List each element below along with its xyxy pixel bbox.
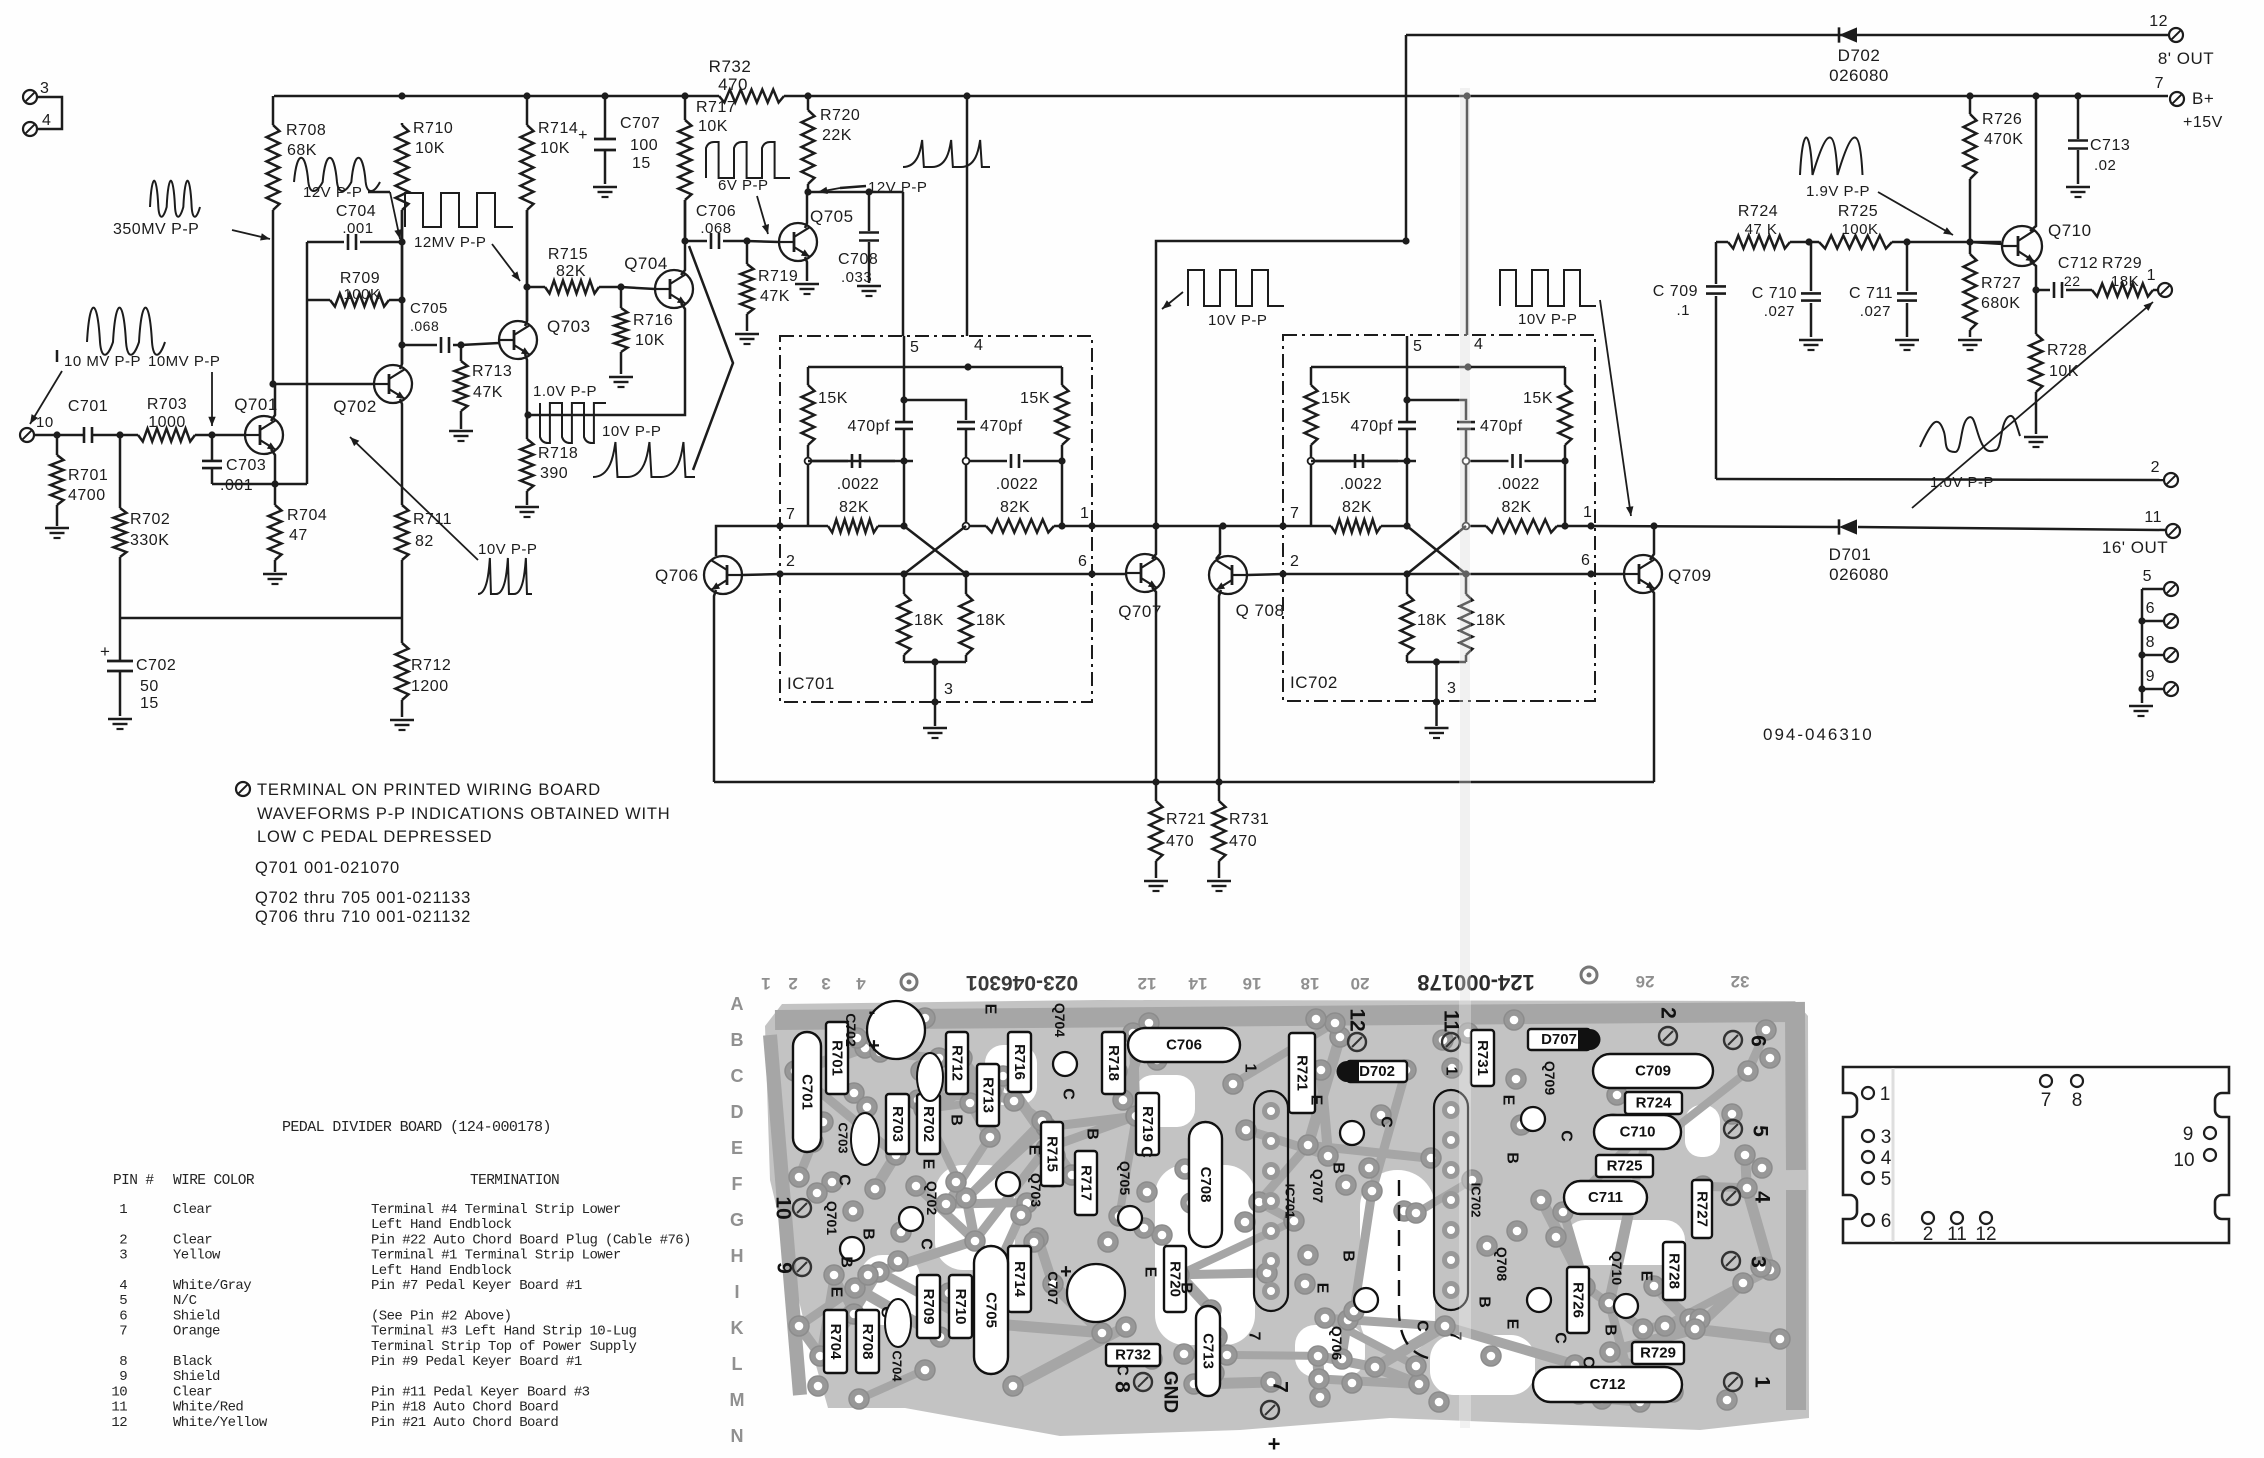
svg-text:18K: 18K <box>1417 612 1447 629</box>
ground Q705 <box>795 284 819 294</box>
svg-text:GND: GND <box>1160 1371 1181 1413</box>
svg-text:5: 5 <box>910 339 919 356</box>
svg-text:C711: C711 <box>1588 1189 1623 1206</box>
resistor R721 <box>1150 782 1207 878</box>
svg-text:470pf: 470pf <box>1480 418 1523 435</box>
waveform 10v square right <box>1500 270 1596 306</box>
svg-text:C703: C703 <box>836 1122 851 1153</box>
svg-text:TERMINAL ON PRINTED WIRING BOA: TERMINAL ON PRINTED WIRING BOARD <box>257 781 601 799</box>
svg-text:10V P-P: 10V P-P <box>478 541 537 558</box>
svg-text:680K: 680K <box>1981 295 2020 312</box>
svg-text:6: 6 <box>1078 553 1087 570</box>
resistor R702 <box>114 435 171 618</box>
svg-text:Clear: Clear <box>173 1384 212 1400</box>
svg-text:R724: R724 <box>1738 203 1778 220</box>
svg-text:C: C <box>1552 1332 1569 1344</box>
svg-text:Left Hand Endblock: Left Hand Endblock <box>371 1217 512 1233</box>
svg-text:7: 7 <box>1290 505 1299 522</box>
wire emitter bottom y=618 <box>120 617 402 620</box>
svg-text:B: B <box>1504 1152 1521 1164</box>
ground R721 <box>1144 881 1168 891</box>
wire Q701 collector <box>271 384 275 421</box>
resistor R726 <box>1964 96 2024 242</box>
svg-text:15K: 15K <box>818 390 848 407</box>
svg-text:LOW C PEDAL DEPRESSED: LOW C PEDAL DEPRESSED <box>257 828 492 846</box>
svg-text:C 709: C 709 <box>1653 283 1698 300</box>
svg-text:R702: R702 <box>920 1106 937 1142</box>
waveform 350mv sine <box>150 181 200 217</box>
wire y=192 to pin5 <box>808 188 903 336</box>
svg-text:82K: 82K <box>1342 499 1372 516</box>
svg-text:Q706 thru 710 001-021132: Q706 thru 710 001-021132 <box>255 908 471 926</box>
capacitor C701 <box>68 398 108 443</box>
svg-text:R731: R731 <box>1229 811 1269 828</box>
svg-text:.1: .1 <box>1676 302 1690 319</box>
svg-text:1: 1 <box>1880 1084 1891 1105</box>
svg-text:IC701: IC701 <box>787 674 835 693</box>
svg-text:.0022: .0022 <box>1497 476 1540 493</box>
label 12MV P-P <box>414 234 520 281</box>
note line 2 <box>257 805 670 823</box>
terminal 6 <box>2138 600 2178 628</box>
capacitor C708 <box>838 192 879 286</box>
terminal 3 <box>23 80 49 104</box>
svg-text:C: C <box>731 1066 744 1086</box>
svg-text:10V P-P: 10V P-P <box>1518 311 1577 328</box>
resistor R718 <box>521 439 579 505</box>
ground C711 <box>1895 340 1919 350</box>
svg-text:Q704: Q704 <box>624 254 668 273</box>
svg-text:Q710: Q710 <box>2048 221 2092 240</box>
svg-text:B: B <box>838 1256 855 1268</box>
svg-text:C704: C704 <box>336 203 376 220</box>
capacitor C703 <box>202 435 266 494</box>
capacitor C711 <box>1849 242 1917 337</box>
wire interdivider riser <box>1156 237 1410 526</box>
note Q706 pn <box>255 908 471 926</box>
capacitor C712 <box>2036 255 2098 298</box>
svg-text:N: N <box>731 1426 744 1446</box>
svg-text:+: + <box>868 1035 880 1057</box>
svg-text:.02: .02 <box>2094 157 2116 174</box>
svg-text:20: 20 <box>1351 974 1370 993</box>
svg-text:82K: 82K <box>556 263 586 280</box>
svg-text:12: 12 <box>1975 1224 1996 1245</box>
svg-text:.027: .027 <box>1860 303 1891 320</box>
svg-text:Orange: Orange <box>173 1324 220 1340</box>
svg-text:I: I <box>734 1282 739 1302</box>
svg-text:.068: .068 <box>700 220 731 237</box>
svg-text:C: C <box>1138 1146 1155 1158</box>
svg-text:R731: R731 <box>1474 1040 1491 1076</box>
svg-text:18: 18 <box>1301 974 1320 993</box>
svg-text:R713: R713 <box>472 363 512 380</box>
svg-text:3: 3 <box>40 80 49 97</box>
capacitor C702 electrolytic <box>100 618 176 716</box>
svg-text:6: 6 <box>1747 1035 1770 1047</box>
svg-text:7: 7 <box>1269 1381 1292 1393</box>
svg-text:1: 1 <box>1443 1067 1460 1076</box>
svg-text:Q710: Q710 <box>1609 1251 1625 1285</box>
svg-text:E: E <box>1638 1271 1655 1282</box>
svg-text:C707: C707 <box>620 115 660 132</box>
pcb components <box>793 1001 1713 1402</box>
svg-text:D702: D702 <box>1838 46 1881 65</box>
svg-text:6: 6 <box>2146 600 2155 617</box>
svg-text:124-000178: 124-000178 <box>1417 970 1534 995</box>
svg-text:10: 10 <box>36 414 54 431</box>
capacitor C706 <box>685 203 747 249</box>
svg-text:Terminal #1 Terminal Strip Low: Terminal #1 Terminal Strip Lower <box>371 1248 621 1264</box>
transistor Q708 <box>1209 556 1284 620</box>
svg-text:10: 10 <box>111 1384 127 1400</box>
svg-text:470: 470 <box>718 75 748 94</box>
svg-text:D707: D707 <box>1541 1031 1577 1048</box>
svg-text:22K: 22K <box>822 127 852 144</box>
svg-text:2: 2 <box>1923 1224 1934 1245</box>
svg-text:15K: 15K <box>1020 390 1050 407</box>
svg-text:R719: R719 <box>758 268 798 285</box>
note Q702 pn <box>255 889 471 907</box>
resistor R728 <box>2030 334 2088 434</box>
transistor Q707 <box>1118 554 1164 621</box>
label 094-046310 <box>1763 725 1874 744</box>
svg-text:47 K: 47 K <box>1745 221 1778 238</box>
svg-text:R721: R721 <box>1166 811 1206 828</box>
label 10MV P-P 2 <box>148 353 220 426</box>
svg-text:C704: C704 <box>890 1350 905 1382</box>
svg-text:10 MV P-P: 10 MV P-P <box>64 353 141 370</box>
svg-text:R724: R724 <box>1636 1095 1673 1112</box>
svg-text:R715: R715 <box>548 246 588 263</box>
node R719 base <box>743 237 750 244</box>
resistor R729 <box>2092 255 2153 297</box>
svg-text:(See Pin #2 Above): (See Pin #2 Above) <box>371 1308 511 1324</box>
svg-text:1.0V P-P: 1.0V P-P <box>533 383 597 400</box>
svg-text:+: + <box>100 642 110 661</box>
svg-text:1: 1 <box>1080 505 1089 522</box>
svg-text:PIN #: PIN # <box>113 1173 154 1189</box>
capacitor C707 <box>578 96 660 184</box>
IC702 pin4 riser <box>1466 96 1469 335</box>
wire Q709 emitter <box>1650 588 1654 782</box>
svg-text:E: E <box>982 1004 999 1015</box>
svg-text:L: L <box>732 1354 743 1374</box>
svg-text:1: 1 <box>1583 504 1592 521</box>
svg-text:3: 3 <box>821 974 830 993</box>
svg-text:15: 15 <box>632 155 651 172</box>
terminal 8 <box>2138 621 2178 688</box>
svg-text:Terminal #4 Terminal Strip Low: Terminal #4 Terminal Strip Lower <box>371 1202 621 1218</box>
svg-text:Terminal #3 Left Hand Strip 10: Terminal #3 Left Hand Strip 10-Lug <box>371 1324 636 1340</box>
svg-text:R708: R708 <box>859 1324 876 1360</box>
svg-text:6: 6 <box>1881 1211 1892 1232</box>
terminal 10 input <box>20 414 54 442</box>
wire Q702 base <box>273 383 374 386</box>
wire Q703 base <box>461 343 499 345</box>
svg-text:7: 7 <box>786 506 795 523</box>
svg-text:470pf: 470pf <box>847 418 890 435</box>
svg-text:10: 10 <box>2173 1150 2194 1171</box>
waveform 12mv square <box>405 193 513 227</box>
svg-text:R725: R725 <box>1838 203 1878 220</box>
pin wire table <box>111 1119 690 1431</box>
svg-text:68K: 68K <box>287 142 317 159</box>
label 1.0V P-P right <box>1930 474 1994 491</box>
svg-text:10V P-P: 10V P-P <box>602 423 661 440</box>
node emitter wire <box>524 411 531 418</box>
label IC701 <box>787 674 835 693</box>
svg-text:Q703: Q703 <box>547 317 591 336</box>
svg-text:470K: 470K <box>1984 131 2023 148</box>
svg-text:1.0V P-P: 1.0V P-P <box>1930 474 1994 491</box>
wire Q706 emitter <box>714 590 716 782</box>
svg-text:E: E <box>1026 1145 1043 1156</box>
svg-text:White/Red: White/Red <box>173 1400 243 1416</box>
svg-text:R710: R710 <box>413 120 453 137</box>
svg-text:2: 2 <box>788 974 797 993</box>
svg-text:3: 3 <box>1881 1127 1892 1148</box>
svg-text:350MV P-P: 350MV P-P <box>113 221 199 238</box>
wire Q701 emitter node <box>212 242 307 488</box>
svg-text:10V P-P: 10V P-P <box>1208 312 1267 329</box>
svg-text:Pin #18 Auto Chord Board: Pin #18 Auto Chord Board <box>371 1400 558 1416</box>
IC702 pin labels <box>1290 336 1592 697</box>
svg-text:100K: 100K <box>1841 221 1878 238</box>
scan crease overlay <box>1459 88 1471 1433</box>
transistor Q706 <box>655 556 742 594</box>
svg-text:12V P-P: 12V P-P <box>303 184 362 201</box>
svg-text:.0022: .0022 <box>996 476 1039 493</box>
waveform 1.9v spikes <box>1800 138 1863 176</box>
svg-text:C: C <box>1580 1356 1597 1368</box>
svg-text:16' OUT: 16' OUT <box>2102 538 2168 557</box>
svg-text:470: 470 <box>1229 833 1257 850</box>
svg-text:R712: R712 <box>411 657 451 674</box>
ground R718 <box>515 507 539 517</box>
svg-text:C713: C713 <box>1200 1333 1217 1369</box>
svg-text:+15V: +15V <box>2183 114 2223 131</box>
ground R713 <box>449 431 473 441</box>
svg-text:10MV P-P: 10MV P-P <box>148 353 220 370</box>
waveform 6v pulses <box>706 142 790 178</box>
svg-text:R712: R712 <box>949 1045 966 1081</box>
label 10V P-P stage2 <box>1162 292 1267 329</box>
svg-text:Clear: Clear <box>173 1232 212 1248</box>
svg-text:15K: 15K <box>1321 390 1351 407</box>
svg-text:.22: .22 <box>2060 273 2081 289</box>
svg-text:9: 9 <box>119 1369 127 1385</box>
svg-text:R718: R718 <box>1105 1045 1122 1081</box>
svg-text:2: 2 <box>786 553 795 570</box>
svg-text:Yellow: Yellow <box>173 1248 221 1264</box>
svg-text:100K: 100K <box>343 286 380 303</box>
svg-text:N/C: N/C <box>173 1293 197 1309</box>
svg-text:E: E <box>731 1138 743 1158</box>
svg-text:10K: 10K <box>635 332 665 349</box>
svg-text:1.9V P-P: 1.9V P-P <box>1806 183 1870 200</box>
label 1.9V P-P <box>1806 183 1953 235</box>
wire 8ft line y=35 <box>1406 35 2168 241</box>
transistor Q704 <box>624 254 693 308</box>
svg-text:Q702: Q702 <box>924 1181 940 1215</box>
svg-text:390: 390 <box>540 465 568 482</box>
svg-text:1: 1 <box>2147 267 2156 284</box>
wire Q704 collector <box>681 200 685 275</box>
svg-text:8: 8 <box>2072 1090 2083 1111</box>
svg-text:10K: 10K <box>415 140 445 157</box>
resistor R724 <box>1728 203 1790 249</box>
svg-text:Pin #7 Pedal Keyer Board #1: Pin #7 Pedal Keyer Board #1 <box>371 1278 582 1294</box>
node bus junctions <box>398 92 2081 99</box>
ground R727 <box>1958 340 1982 350</box>
resistor R710 <box>396 120 454 364</box>
resistor R717 <box>679 96 737 241</box>
svg-text:8: 8 <box>1111 1381 1134 1393</box>
label 10V P-P small <box>478 541 537 558</box>
svg-text:8' OUT: 8' OUT <box>2158 49 2214 68</box>
resistor R732 <box>709 57 784 103</box>
svg-text:C706: C706 <box>696 203 736 220</box>
svg-text:R714: R714 <box>538 120 578 137</box>
note line 3 <box>257 828 492 846</box>
label 350MV P-P <box>113 221 270 241</box>
svg-text:14: 14 <box>1188 974 1207 993</box>
note line 1 <box>257 781 601 799</box>
leader C709 to 16ft node <box>1600 300 1633 516</box>
svg-text:B: B <box>1178 1282 1195 1294</box>
svg-text:C: C <box>836 1174 853 1186</box>
svg-text:Pin #21 Auto Chord Board: Pin #21 Auto Chord Board <box>371 1415 558 1431</box>
svg-text:PEDAL DIVIDER BOARD (124-00017: PEDAL DIVIDER BOARD (124-000178) <box>282 1119 551 1136</box>
wire Q709 collector <box>1650 522 1658 560</box>
transistor Q709 <box>1624 555 1712 593</box>
terminal 11 16' OUT <box>2102 509 2180 557</box>
svg-text:R713: R713 <box>980 1077 997 1113</box>
wire Q702 emitter <box>400 399 402 505</box>
label 10 MV P-P <box>30 350 141 424</box>
ground R719 <box>735 334 759 344</box>
svg-text:B: B <box>1340 1250 1357 1262</box>
label 6V P-P <box>718 177 769 234</box>
svg-text:R715: R715 <box>1044 1136 1061 1172</box>
svg-text:R703: R703 <box>889 1106 906 1142</box>
svg-text:R721: R721 <box>1294 1055 1311 1091</box>
wire Q704 base <box>621 287 655 289</box>
svg-text:Black: Black <box>173 1354 212 1370</box>
resistor R708 <box>267 96 327 384</box>
svg-text:50: 50 <box>140 678 159 695</box>
resistor R719 <box>741 241 799 331</box>
node C706 <box>681 237 688 244</box>
svg-text:330K: 330K <box>130 532 169 549</box>
svg-text:18K: 18K <box>914 612 944 629</box>
svg-text:B: B <box>1330 1162 1347 1174</box>
svg-text:M: M <box>730 1390 745 1410</box>
svg-text:IC702: IC702 <box>1290 673 1338 692</box>
node Q702 base <box>269 380 276 387</box>
terminal 7 B+ <box>2155 75 2223 131</box>
transistor Q710 <box>2002 221 2092 266</box>
svg-text:10K: 10K <box>540 140 570 157</box>
capacitor C710 <box>1752 242 1821 337</box>
svg-text:C707: C707 <box>1045 1271 1061 1305</box>
svg-text:.068: .068 <box>410 318 439 334</box>
leader 10V to C706 <box>689 246 733 470</box>
svg-text:WIRE COLOR: WIRE COLOR <box>173 1173 255 1189</box>
ground C713 <box>2066 187 2090 197</box>
wire Q706 base pin2 <box>742 570 904 577</box>
svg-text:6V P-P: 6V P-P <box>718 177 769 194</box>
ground C708 <box>857 286 881 296</box>
resistor R727 <box>1964 242 2022 337</box>
svg-text:82K: 82K <box>1000 499 1030 516</box>
pcb copper side (traces and pads) <box>765 1000 1809 1436</box>
svg-text:8: 8 <box>119 1354 127 1370</box>
resistor R701 <box>51 435 109 526</box>
resistor R703 <box>138 396 195 442</box>
svg-text:R720: R720 <box>820 107 860 124</box>
svg-text:Pin #11 Pedal Keyer Board #3: Pin #11 Pedal Keyer Board #3 <box>371 1384 590 1400</box>
transistor Q703 <box>499 317 591 359</box>
svg-text:C702: C702 <box>843 1013 859 1047</box>
leader arrow to terminal 1 <box>1912 302 2153 508</box>
svg-text:15: 15 <box>140 695 159 712</box>
label 10V P-P stage2b <box>1518 311 1577 328</box>
svg-text:Q706: Q706 <box>1329 1326 1345 1360</box>
svg-text:4: 4 <box>1751 1191 1774 1203</box>
wire Q708 emitter <box>1219 590 1221 782</box>
waveform 10v square mid <box>1188 270 1284 306</box>
svg-text:9: 9 <box>2183 1124 2194 1145</box>
svg-text:Q709: Q709 <box>1542 1061 1558 1095</box>
svg-text:47K: 47K <box>473 384 503 401</box>
svg-text:F: F <box>732 1174 743 1194</box>
wire Q705 collector <box>805 192 807 228</box>
svg-text:3: 3 <box>1447 680 1456 697</box>
svg-text:C712: C712 <box>1590 1376 1626 1393</box>
svg-text:4: 4 <box>42 112 51 129</box>
diode D701 <box>1829 519 1889 584</box>
svg-text:18K: 18K <box>976 612 1006 629</box>
capacitor C704 <box>307 203 402 250</box>
node R715 tap <box>523 283 530 290</box>
svg-text:9: 9 <box>2146 668 2155 685</box>
terminal 4 <box>23 112 51 136</box>
svg-text:C: C <box>1378 1116 1395 1128</box>
svg-text:C705: C705 <box>983 1292 1000 1328</box>
svg-text:3: 3 <box>944 681 953 698</box>
svg-text:82K: 82K <box>839 499 869 516</box>
svg-text:Q 708: Q 708 <box>1236 601 1285 620</box>
svg-text:2: 2 <box>1657 1007 1680 1019</box>
svg-text:B: B <box>1476 1296 1493 1308</box>
svg-text:+: + <box>578 127 588 144</box>
wire 16ft line <box>1565 522 2166 530</box>
resistor R720 <box>802 96 861 192</box>
svg-text:18K: 18K <box>1476 612 1506 629</box>
svg-text:R703: R703 <box>147 396 187 413</box>
svg-text:Q704: Q704 <box>1052 1003 1068 1037</box>
svg-text:R729: R729 <box>1640 1345 1676 1362</box>
svg-text:+: + <box>1268 1432 1281 1457</box>
label 1.0V P-P mid <box>533 383 597 400</box>
svg-text:1: 1 <box>1242 1064 1259 1073</box>
wire pin7 Q706 collector <box>716 522 808 556</box>
wire pin2-6 y=574 IC702 <box>1407 570 1624 577</box>
svg-text:470: 470 <box>1166 833 1194 850</box>
svg-text:R732: R732 <box>1115 1347 1151 1364</box>
